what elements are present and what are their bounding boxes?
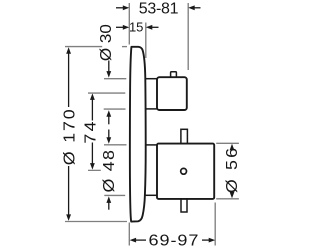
- svg-text:15: 15: [129, 20, 143, 35]
- svg-text:53-81: 53-81: [139, 1, 179, 18]
- svg-text:Ø 170: Ø 170: [61, 108, 79, 166]
- svg-text:Ø 56: Ø 56: [223, 146, 241, 193]
- svg-text:Ø 30: Ø 30: [98, 24, 115, 61]
- svg-text:74: 74: [82, 119, 100, 143]
- svg-text:69-97: 69-97: [149, 232, 200, 250]
- svg-text:Ø 48: Ø 48: [100, 149, 118, 193]
